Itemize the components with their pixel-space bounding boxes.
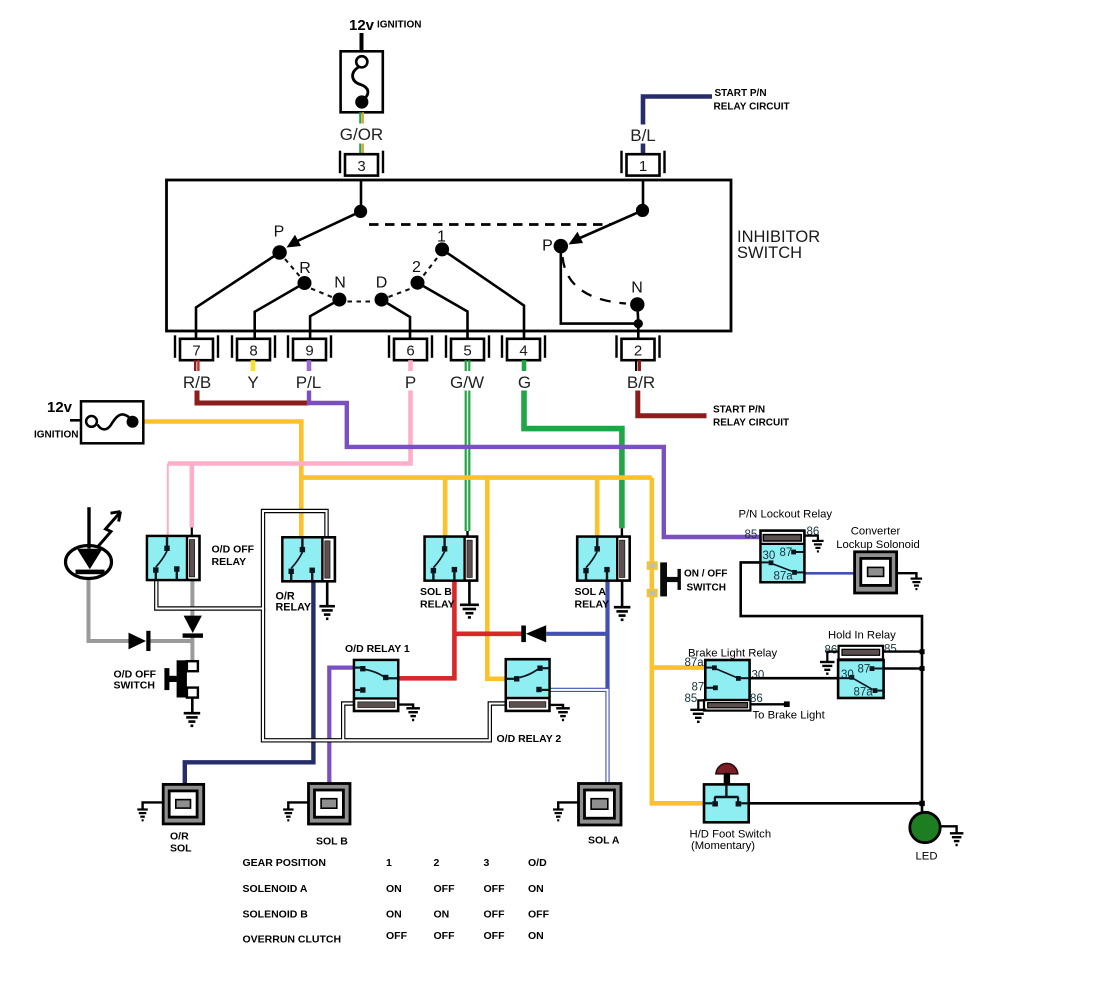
LED indicator (photo symbol) (66, 507, 121, 578)
wire R/B stub (195, 360, 198, 371)
svg-text:(Momentary): (Momentary) (691, 840, 755, 852)
ON/OFF switch terminals (647, 561, 658, 597)
wire R/B run to P/L junction (197, 391, 309, 404)
connector 3 (340, 151, 383, 176)
svg-text:H/D Foot Switch: H/D Foot Switch (690, 829, 772, 841)
label 2 (contact) (412, 259, 421, 276)
svg-text:30: 30 (841, 669, 854, 681)
svg-text:O/D RELAY 2: O/D RELAY 2 (497, 733, 562, 745)
label Hold In Relay (828, 630, 896, 642)
ground (hold relay) (820, 662, 835, 674)
svg-text:30: 30 (752, 670, 765, 682)
label 1 (contact) (437, 229, 446, 246)
label G/OR (340, 125, 383, 144)
wire G/W run to SOL B relay coil (466, 391, 470, 542)
svg-text:SWITCH: SWITCH (687, 583, 726, 594)
wire contact D to pin 6 (382, 300, 411, 332)
label INHIBITOR SWITCH (737, 228, 820, 262)
label O/D OFF SWITCH (114, 669, 157, 692)
svg-text:SWITCH: SWITCH (114, 680, 155, 692)
svg-text:4: 4 (519, 342, 527, 359)
svg-text:O/D: O/D (528, 857, 547, 869)
svg-text:SOL B: SOL B (420, 586, 452, 598)
svg-text:OFF: OFF (484, 883, 506, 895)
ground (converter solenoid) (911, 579, 923, 590)
svg-text:RELAY: RELAY (420, 599, 455, 611)
wire O/R relay coil to ground (326, 581, 329, 606)
label Converter Lockup Solonoid (836, 526, 920, 552)
contact 1 dot (435, 242, 449, 256)
ignition switch SW2 (left) (70, 401, 143, 443)
node junction hold 85 / vertical (920, 649, 925, 654)
svg-text:P: P (542, 238, 553, 255)
H/D foot switch body (704, 784, 749, 822)
label 87a (P/N relay) (774, 571, 794, 583)
wire red SOL B relay to O/D relay 1 and diode (398, 581, 522, 679)
label 87 (hold relay) (858, 664, 871, 676)
svg-text:9: 9 (305, 342, 313, 359)
connector 5 (bottom row) (446, 335, 489, 360)
label 87 (P/N relay) (780, 547, 793, 559)
wire LED to ground (940, 826, 957, 833)
connector 9 (bottom row) (288, 335, 331, 360)
svg-text:ON: ON (434, 909, 450, 921)
svg-text:12v: 12v (47, 399, 73, 416)
label 86 (brake relay) (750, 693, 763, 705)
contact N dot (332, 293, 346, 307)
svg-text:SOL: SOL (170, 843, 192, 855)
table gear position (243, 857, 550, 946)
contact R dot (298, 276, 312, 290)
svg-text:SOLENOID A: SOLENOID A (243, 883, 308, 895)
wire purple P/L run to P/N lockout relay (309, 391, 761, 538)
svg-text:85: 85 (685, 693, 698, 705)
node pivot A (354, 205, 367, 218)
relay Hold In coil (839, 646, 883, 660)
label R (299, 260, 311, 277)
label 87a (hold relay) (854, 687, 874, 699)
label ON / OFF SWITCH (684, 569, 727, 594)
relay Hold In (838, 660, 884, 698)
label 87a (brake relay) (685, 657, 705, 669)
wire converter solenoid to ground (897, 573, 917, 578)
wire O/D relay 1 coil to ground (398, 705, 413, 708)
svg-text:O/R: O/R (170, 831, 189, 843)
svg-text:87a: 87a (685, 657, 705, 669)
svg-text:30: 30 (763, 550, 776, 562)
relay P/N Lockout (761, 531, 805, 583)
svg-text:RELAY CIRCUIT: RELAY CIRCUIT (714, 102, 790, 113)
svg-text:O/D RELAY 1: O/D RELAY 1 (345, 643, 410, 655)
svg-text:5: 5 (463, 342, 471, 359)
wire pin1 stub into switch (642, 180, 645, 206)
wire O/D OFF switch to ground (191, 698, 194, 713)
connector 4 (bottom row) (502, 335, 545, 360)
ground (SOL A relay) (614, 607, 631, 620)
label D (376, 274, 388, 291)
ground (O/D relay 1) (406, 708, 420, 720)
svg-text:2: 2 (634, 342, 642, 359)
label O/D RELAY 1 (345, 643, 410, 655)
label 30 (hold relay) (841, 669, 854, 681)
wire foot switch to LED vertical (749, 802, 922, 805)
svg-text:87: 87 (780, 547, 793, 559)
wire G/W stub (466, 360, 470, 371)
contact P dot (272, 245, 286, 259)
ground (SOL B relay) (460, 605, 479, 618)
solenoid SOL B (309, 784, 351, 825)
svg-text:IGNITION: IGNITION (34, 430, 78, 441)
svg-text:RELAY CIRCUIT: RELAY CIRCUIT (713, 418, 789, 429)
svg-text:OFF: OFF (386, 930, 408, 942)
ground (O/R relay) (319, 606, 335, 619)
wire contact P2 to junction (561, 246, 639, 324)
label 85 (brake relay) (685, 693, 698, 705)
svg-text:P: P (274, 223, 285, 240)
diode D3 (between red and blue) (521, 625, 546, 642)
wire brake relay 85 to ground (698, 700, 705, 709)
connector 1 (622, 151, 665, 176)
wire purple O/D relay 1 to SOL B solenoid (329, 668, 354, 784)
label 86 (P/N relay) (807, 526, 820, 538)
wire G stub (522, 360, 527, 371)
inhibitor switch box U1 (167, 180, 732, 331)
wire SOL B to ground (288, 802, 308, 809)
svg-text:G: G (518, 373, 531, 392)
label 12v IGNITION (left) (34, 399, 78, 441)
solenoid SOL A (579, 784, 622, 826)
svg-text:Lockup Solonoid: Lockup Solonoid (836, 539, 920, 551)
wire brake relay 30 to hold-in relay 30 (750, 677, 839, 680)
contact 2 dot (411, 276, 425, 290)
ground (SOL B) (283, 810, 294, 821)
wire G run to SOL A relay coil (524, 391, 622, 542)
diode D2 (pointing down) (183, 616, 203, 638)
label To Brake Light (753, 710, 826, 722)
svg-text:ON: ON (386, 883, 402, 895)
wire O/D relay 2 coil to ground (550, 705, 564, 708)
wire blue diode to SOL A relay (546, 581, 607, 688)
switch arm B with arrowhead to P (569, 210, 643, 244)
label Y (247, 373, 258, 392)
svg-text:Converter: Converter (851, 526, 901, 538)
ignition switch SW1 (top) (341, 51, 383, 112)
svg-text:START P/N: START P/N (713, 405, 765, 416)
wire junction to pin 2 (637, 324, 640, 332)
label START P/N RELAY CIRCUIT (mid right) (713, 405, 789, 429)
wire contact P to pin 7 (196, 253, 280, 332)
svg-text:P: P (405, 373, 416, 392)
label P/L (296, 373, 322, 392)
wire G/OR stub lower (360, 144, 363, 155)
wire P stub (408, 360, 413, 371)
svg-text:87a: 87a (854, 687, 874, 699)
label P/N Lockout Relay (739, 509, 833, 521)
svg-text:SOL B: SOL B (316, 836, 348, 848)
wire contact 1 to pin 4 (442, 249, 524, 331)
svg-text:O/D OFF: O/D OFF (212, 544, 255, 556)
wire pink P run to O/D OFF relay (168, 391, 413, 537)
svg-text:R/B: R/B (183, 373, 211, 392)
label 85 (hold relay) (884, 644, 897, 656)
ground (SOL A) (553, 810, 564, 821)
label 85 (P/N relay) (745, 529, 758, 541)
label START P/N RELAY CIRCUIT (top right) (714, 88, 790, 113)
svg-text:85: 85 (884, 644, 897, 656)
label N (334, 274, 346, 291)
svg-text:1: 1 (386, 857, 392, 869)
connector 8 (bottom row) (232, 335, 275, 360)
svg-text:87: 87 (858, 664, 871, 676)
svg-text:ON / OFF: ON / OFF (684, 569, 727, 580)
converter lockup solenoid (855, 552, 897, 593)
label Brake Light Relay (688, 648, 778, 660)
label 87 (brake relay) (692, 682, 705, 694)
wire brake relay 86 To Brake Light (750, 701, 789, 707)
ground (P/N relay) (812, 541, 824, 552)
label LED (916, 851, 938, 863)
label B/R (627, 373, 655, 392)
svg-text:D: D (376, 274, 388, 291)
svg-text:85: 85 (745, 529, 758, 541)
label R/B (183, 373, 211, 392)
wire white O/D OFF relay to O/R relay coil and O/D relay coils (156, 511, 506, 740)
node junction hold 87 / vertical (920, 666, 925, 671)
label G (518, 373, 531, 392)
svg-text:12v: 12v (349, 17, 375, 34)
label P (right) (542, 238, 553, 255)
relay O/R RELAY (282, 537, 335, 581)
svg-text:N: N (631, 280, 643, 297)
svg-text:87: 87 (692, 682, 705, 694)
diode D1 (left, pointing right) (129, 631, 151, 651)
relay O/D RELAY 2 (506, 659, 550, 711)
dashed links between contacts P-R-N-D-2-1 (285, 258, 437, 302)
wire B/R to START P/N RELAY CIRCUIT (638, 391, 707, 416)
label B/L (630, 126, 656, 145)
svg-text:2: 2 (412, 259, 421, 276)
solenoid O/R SOL (163, 784, 204, 824)
svg-text:RELAY: RELAY (575, 599, 610, 611)
wire O/R SOL to ground (143, 802, 164, 809)
wire yellow 12v ignition feed network (143, 422, 705, 804)
label 86 (hold relay) (825, 645, 838, 657)
svg-text:6: 6 (406, 342, 414, 359)
wire P/N relay 86 to ground (804, 536, 818, 541)
svg-text:OFF: OFF (528, 909, 550, 921)
svg-text:SOL A: SOL A (588, 835, 620, 847)
label P (left) (274, 223, 285, 240)
wire SOL A relay coil to ground (621, 581, 624, 607)
svg-text:N: N (334, 274, 346, 291)
relay Brake Light (704, 660, 750, 711)
switch arm A with arrowhead to P (287, 211, 361, 247)
label O/R RELAY (276, 591, 312, 614)
label SOL A RELAY (575, 586, 610, 611)
label SOL A (588, 835, 620, 847)
relay O/D OFF RELAY (147, 536, 200, 580)
wire hold relay 85 to vertical (883, 650, 922, 652)
label G/W (450, 373, 484, 392)
label P (wire) (405, 373, 416, 392)
svg-text:LED: LED (916, 851, 938, 863)
svg-text:8: 8 (249, 342, 257, 359)
svg-text:Y: Y (247, 373, 258, 392)
svg-text:B/R: B/R (627, 373, 655, 392)
svg-text:RELAY: RELAY (276, 602, 312, 614)
svg-text:ON: ON (386, 909, 402, 921)
H/D foot switch button (716, 763, 738, 784)
ground (O/D OFF switch) (184, 713, 201, 726)
label O/D OFF RELAY (212, 544, 255, 569)
label N (right) (631, 280, 643, 297)
svg-text:OFF: OFF (434, 930, 456, 942)
svg-text:3: 3 (484, 857, 490, 869)
svg-text:G/OR: G/OR (340, 125, 383, 144)
svg-text:IGNITION: IGNITION (377, 20, 421, 31)
contact P2 dot (554, 239, 568, 253)
wire contact R to pin 8 (255, 283, 305, 332)
relay SOL A RELAY (577, 537, 630, 581)
wire contact 2 to pin 5 (418, 283, 468, 332)
svg-text:START P/N: START P/N (715, 88, 767, 99)
wire 12v feed to ignition switch SW1 (360, 33, 364, 51)
wire blue P/N relay 87a to converter solenoid (804, 572, 854, 575)
svg-text:OFF: OFF (484, 909, 506, 921)
svg-text:SOLENOID B: SOLENOID B (243, 909, 309, 921)
wire hold relay 86 to ground (827, 652, 838, 662)
ON/OFF switch body (660, 562, 681, 596)
LED lamp (910, 812, 940, 842)
svg-text:G/W: G/W (450, 373, 484, 392)
wire LED drop (921, 803, 924, 814)
ground (O/R SOL) (137, 810, 148, 821)
svg-text:R: R (299, 260, 311, 277)
wire G/OR stub upper (360, 112, 363, 123)
wire SOL B relay coil to ground (468, 581, 471, 605)
wire B/R stub (636, 360, 639, 371)
connector 7 (bottom row) (175, 335, 218, 360)
dashed line between the two switch arms (369, 223, 611, 226)
svg-text:3: 3 (357, 158, 365, 175)
ground (brake relay) (690, 710, 706, 722)
relay SOL B RELAY (425, 537, 478, 581)
svg-text:To Brake Light: To Brake Light (753, 710, 826, 722)
label O/R SOL (170, 831, 192, 855)
contact N2 dot (630, 297, 644, 311)
svg-text:2: 2 (434, 857, 440, 869)
svg-text:1: 1 (639, 158, 647, 175)
wire P/L stub (307, 360, 312, 371)
label 30 (brake relay) (752, 670, 765, 682)
svg-text:ON: ON (528, 930, 544, 942)
wire Y stub (251, 360, 256, 371)
label SOL B RELAY (420, 586, 455, 611)
svg-text:7: 7 (192, 342, 200, 359)
svg-text:P/L: P/L (296, 373, 322, 392)
svg-text:GEAR POSITION: GEAR POSITION (243, 857, 326, 869)
svg-text:OFF: OFF (434, 883, 456, 895)
label H/D Foot Switch (Momentary) (690, 829, 772, 853)
label 12v IGNITION (top) (349, 17, 421, 34)
svg-text:OVERRUN CLUTCH: OVERRUN CLUTCH (243, 934, 342, 946)
svg-text:SOL A: SOL A (575, 586, 607, 598)
wire P/N relay 30 to hold-in circuit (741, 562, 922, 803)
label O/D RELAY 2 (497, 733, 562, 745)
wire B/L navy from START P/N relay circuit (643, 97, 712, 154)
node junction foot switch wire (919, 801, 924, 806)
wire hold relay 87 to vertical (884, 667, 922, 669)
svg-text:87a: 87a (774, 571, 794, 583)
contact D dot (375, 293, 389, 307)
relay O/D RELAY 1 (354, 660, 398, 711)
wire SOL A to ground (558, 802, 578, 809)
O/D OFF switch (momentary) (164, 660, 198, 697)
wire contact N to pin 9 (310, 300, 339, 332)
wire pin3 stub into switch (360, 180, 363, 206)
wire navy O/R relay to O/R solenoid (185, 581, 314, 785)
dashed arc P2 to N2 (563, 257, 627, 304)
label 30 (P/N relay) (763, 550, 776, 562)
svg-text:SWITCH: SWITCH (737, 244, 802, 262)
wire stubs inhibitor box to pin connectors (196, 332, 638, 340)
connector 2 (bottom row) (617, 335, 660, 360)
wire N2 stub to junction (637, 305, 638, 323)
svg-text:B/L: B/L (630, 126, 656, 145)
svg-text:RELAY: RELAY (212, 556, 247, 568)
wire blue/white O/D relay 2 to SOL A solenoid (550, 690, 608, 785)
node pivot B (636, 204, 649, 217)
ground (O/D relay 2) (556, 708, 570, 720)
node junction under N2 (634, 319, 643, 328)
svg-text:Hold In Relay: Hold In Relay (828, 630, 896, 642)
connector 6 (bottom row) (389, 335, 432, 360)
label SOL B (316, 836, 348, 848)
wire gray LED indicator loop (89, 579, 193, 662)
svg-text:P/N Lockout Relay: P/N Lockout Relay (739, 509, 833, 521)
svg-text:OFF: OFF (484, 930, 506, 942)
svg-text:ON: ON (528, 883, 544, 895)
ground (LED) (950, 833, 964, 845)
